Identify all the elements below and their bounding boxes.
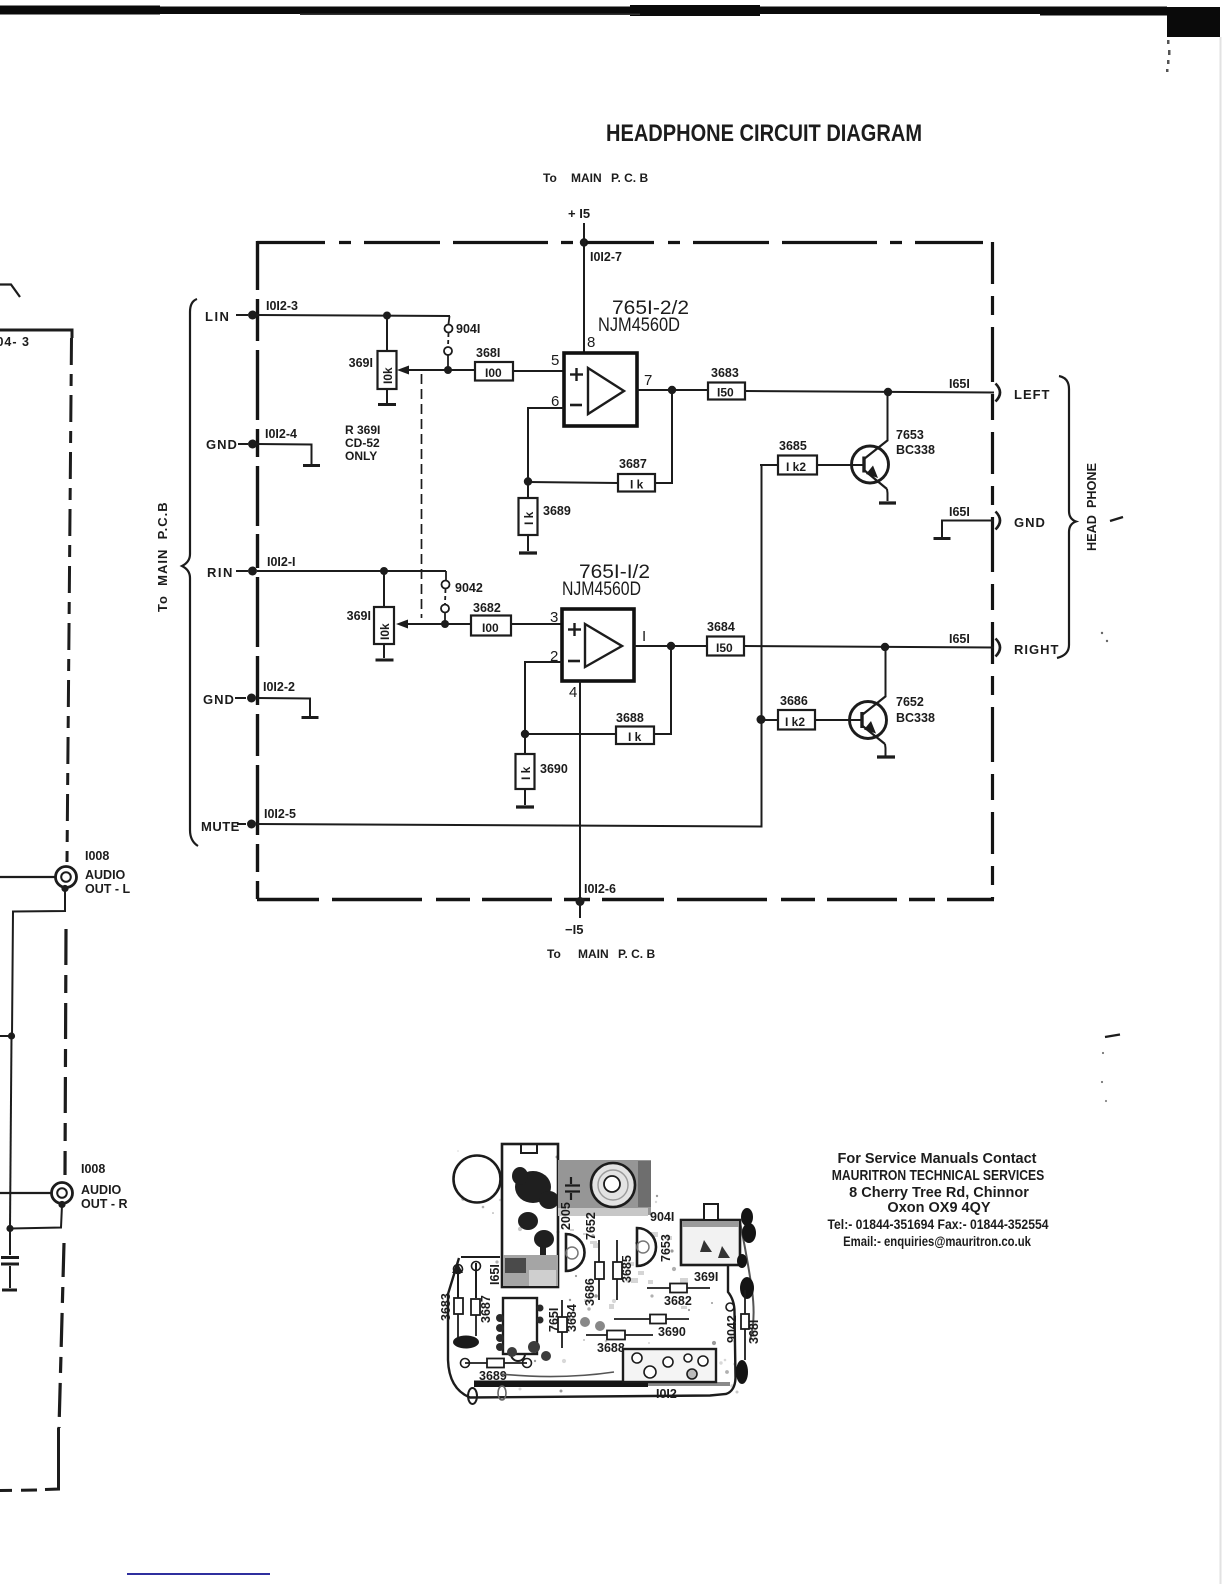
svg-text:Email:- enquiries@mauritron.co: Email:- enquiries@mauritron.co.uk — [843, 1233, 1032, 1249]
wire MUTE — [257, 465, 762, 827]
pcb resistor 3684 — [558, 1317, 567, 1332]
svg-text:5: 5 — [551, 352, 559, 369]
svg-text:I65I: I65I — [949, 377, 970, 391]
op-amp U2 7651-1/2 NJM4560D — [562, 562, 650, 681]
svg-text:3690: 3690 — [658, 1325, 686, 1339]
svg-text:I k: I k — [522, 511, 536, 525]
pcb resistor 3682 — [647, 1287, 710, 1289]
wire wiper R with arrow into 3691 — [396, 620, 471, 629]
PCB layout drawing — [439, 1144, 761, 1404]
ground 3690 — [524, 789, 526, 805]
ground emitter 7653 — [879, 501, 896, 504]
svg-text:Oxon OX9 4QY: Oxon OX9 4QY — [887, 1200, 990, 1216]
ground capacitor — [2, 1289, 17, 1292]
svg-text:765I: 765I — [547, 1308, 561, 1332]
transistor Q 7653 BC338 — [817, 392, 935, 501]
wire LEFT net — [745, 391, 994, 393]
wire 3687 to node — [528, 482, 618, 483]
svg-text:3682: 3682 — [664, 1294, 692, 1308]
svg-text:3688: 3688 — [597, 1341, 625, 1355]
wire audio L shield — [12, 889, 65, 1036]
connector 1008 AUDIO OUT-L — [0, 849, 130, 896]
junction LEFT/7653 — [884, 388, 892, 396]
svg-text:7652: 7652 — [584, 1212, 598, 1240]
ground 3691R — [383, 644, 385, 658]
svg-text:904I: 904I — [650, 1210, 674, 1224]
svg-text:BC338: BC338 — [896, 443, 935, 457]
dashed line below L connector — [65, 929, 66, 1175]
pcb outline top right — [740, 1222, 754, 1340]
wire +15 rail to pin 8 — [583, 223, 585, 353]
svg-text:I008: I008 — [85, 849, 109, 863]
wire wiper L with arrow into 3691 — [397, 366, 475, 375]
svg-text:To: To — [543, 171, 557, 185]
svg-text:I00: I00 — [482, 621, 499, 635]
svg-text:AUDIO: AUDIO — [81, 1183, 122, 1197]
svg-text:2005: 2005 — [559, 1202, 573, 1230]
jumper 9042 — [441, 571, 483, 624]
ground emitter 7652 — [877, 755, 895, 758]
resistor 3691 (L) 10k — [349, 316, 397, 389]
wire RIN — [257, 570, 446, 572]
dashed box border right — [991, 242, 994, 899]
wire output U2 — [634, 645, 707, 647]
svg-text:904I: 904I — [456, 322, 480, 336]
resistor 3690 1k — [516, 734, 568, 789]
svg-text:I65I: I65I — [949, 505, 970, 519]
svg-text:LEFT: LEFT — [1014, 387, 1051, 402]
pcb solder blobs right — [736, 1208, 756, 1384]
svg-text:To MAIN P.C.B: To MAIN P.C.B — [155, 501, 170, 612]
svg-text:−I5: −I5 — [565, 922, 583, 937]
label To MAIN P.C.B (top) — [543, 171, 648, 185]
dashed link 9041-9042 — [421, 374, 423, 618]
svg-text:I0I2-I: I0I2-I — [267, 555, 296, 569]
wire pin6 feedback leg — [528, 408, 564, 481]
pcb transistor 7653 D-shape — [637, 1228, 656, 1266]
connector 1651 GND — [942, 505, 1046, 537]
wire GND1 — [257, 444, 312, 464]
svg-text:I0I2: I0I2 — [656, 1387, 677, 1401]
svg-text:HEADPHONE CIRCUIT DIAGRAM: HEADPHONE CIRCUIT DIAGRAM — [606, 120, 922, 147]
transistor Q 7652 BC338 — [815, 647, 935, 756]
wire feedback R — [654, 646, 671, 734]
pcb board outline — [448, 1246, 736, 1398]
pcb texture noise — [457, 1150, 738, 1393]
junction LIN/3691 — [383, 312, 391, 320]
svg-text:3684: 3684 — [707, 620, 735, 634]
ground GND1 — [303, 464, 320, 467]
svg-text:I k: I k — [519, 766, 533, 780]
svg-text:7652: 7652 — [896, 695, 924, 709]
pcb resistor 3687 — [471, 1299, 480, 1315]
svg-text:I50: I50 — [717, 386, 734, 400]
wire audio R shield — [10, 1205, 62, 1229]
svg-text:7653: 7653 — [896, 428, 924, 442]
pcb blobs inside 2005 — [503, 1167, 559, 1286]
pcb connector 1012 — [623, 1349, 716, 1382]
resistor 3689 1k — [519, 482, 571, 535]
svg-text:RIN: RIN — [207, 565, 234, 580]
note R3691 CD-52 ONLY — [345, 423, 380, 463]
pcb misc pads — [507, 1317, 605, 1361]
svg-text:3683: 3683 — [711, 366, 739, 380]
svg-text:3682: 3682 — [473, 601, 501, 615]
svg-text:NJM4560D: NJM4560D — [562, 579, 641, 600]
brace To MAIN P.C.B — [182, 299, 198, 846]
svg-text:3688: 3688 — [616, 711, 644, 725]
svg-text:8: 8 — [587, 334, 595, 351]
svg-text:GND: GND — [1014, 515, 1046, 530]
svg-text:I k2: I k2 — [785, 715, 805, 729]
ground headphone GND — [934, 537, 951, 540]
pcb resistor 3688 — [586, 1334, 653, 1336]
wire stub left — [0, 1035, 11, 1037]
pcb trace wavy — [500, 1372, 614, 1377]
svg-text:P. C. B: P. C. B — [611, 171, 648, 185]
svg-text:I008: I008 — [81, 1162, 105, 1176]
noise mark mid — [1105, 1035, 1120, 1038]
resistor 3681 100 — [475, 346, 513, 381]
resistor 3683 150 — [708, 366, 745, 400]
svg-text:I: I — [642, 628, 646, 645]
pcb resistor 3689 — [465, 1362, 527, 1364]
svg-text:I k: I k — [628, 730, 642, 744]
svg-text:3686: 3686 — [780, 694, 808, 708]
svg-text:I k2: I k2 — [786, 460, 806, 474]
pcb mounting holes — [468, 1388, 477, 1404]
junction RIGHT/7652 — [881, 643, 889, 651]
wire output U1 — [637, 389, 708, 391]
wire pin2 feedback leg — [525, 662, 562, 734]
junction +15 on border — [580, 238, 588, 246]
svg-text:3689: 3689 — [543, 504, 571, 518]
pcb big circle C — [454, 1156, 501, 1203]
pcb top-left traces — [458, 1257, 500, 1298]
svg-text:I0I2-6: I0I2-6 — [584, 882, 616, 896]
wire 3682 to pin3 — [511, 623, 562, 625]
svg-text:OUT - L: OUT - L — [85, 882, 130, 896]
svg-text:NJM4560D: NJM4560D — [598, 315, 680, 336]
jumper 9041 — [444, 316, 480, 370]
svg-text:3683: 3683 — [439, 1293, 453, 1321]
junction output U1 — [668, 386, 676, 394]
svg-text:OUT - R: OUT - R — [81, 1197, 128, 1211]
junction shield R — [6, 1225, 13, 1232]
svg-text:I0I2-3: I0I2-3 — [266, 299, 298, 313]
svg-text:I00: I00 — [485, 366, 502, 380]
resistor 3691 (R) 10k — [347, 571, 394, 644]
left schematic corner curve — [0, 285, 20, 298]
junction shield L — [8, 1032, 15, 1039]
op-amp U1 7651-2/2 NJM4560D — [564, 298, 689, 426]
pcb pot 3691 block — [681, 1220, 740, 1265]
svg-text:8 Cherry Tree Rd, Chinnor: 8 Cherry Tree Rd, Chinnor — [849, 1185, 1029, 1201]
svg-text:9042: 9042 — [455, 581, 483, 595]
label To MAIN P.C.B (bottom) — [547, 947, 655, 961]
svg-text:For Service Manuals Contact: For Service Manuals Contact — [837, 1151, 1036, 1167]
svg-text:I0I2-4: I0I2-4 — [265, 427, 297, 441]
svg-text:3689: 3689 — [479, 1369, 507, 1383]
wire RIGHT net — [744, 646, 994, 648]
pcb resistors 3685 3686 vertical — [595, 1262, 604, 1279]
junction 9041/wiper — [444, 366, 452, 374]
resistor 3685 1k2 — [778, 439, 817, 475]
pcb resistor 3690 — [614, 1318, 689, 1320]
svg-text:GND: GND — [203, 692, 235, 707]
ground 3691L — [386, 389, 388, 403]
svg-text:I65I: I65I — [488, 1264, 502, 1285]
svg-text:I04- 3: I04- 3 — [0, 335, 30, 349]
wire shield down — [10, 1036, 12, 1228]
pcb IC 7651 — [503, 1298, 537, 1354]
svg-text:7: 7 — [644, 372, 652, 389]
wire GND2 — [257, 698, 310, 716]
dashed box border left — [256, 241, 259, 899]
junction 1012-6 on border — [576, 897, 585, 906]
dashed line below R connector — [59, 1243, 64, 1428]
svg-text:BC338: BC338 — [896, 711, 935, 725]
svg-text:I50: I50 — [716, 641, 733, 655]
svg-text:ONLY: ONLY — [345, 449, 377, 463]
ground GND2 — [302, 716, 319, 719]
svg-text:RIGHT: RIGHT — [1014, 642, 1059, 657]
svg-text:I0I2-5: I0I2-5 — [264, 807, 296, 821]
pcb resistor 3683 — [454, 1298, 463, 1314]
svg-text:Tel:- 01844-351694 Fax:- 01844: Tel:- 01844-351694 Fax:- 01844-352554 — [828, 1216, 1050, 1232]
resistor 3687 1k — [618, 457, 655, 492]
svg-text:3686: 3686 — [583, 1278, 597, 1306]
svg-text:I0I2-2: I0I2-2 — [263, 680, 295, 694]
svg-text:MAIN: MAIN — [578, 947, 609, 961]
junction RIN/3691 — [380, 567, 388, 575]
svg-text:3685: 3685 — [779, 439, 807, 453]
wire feedback L — [655, 390, 672, 483]
left box dashed edge — [67, 338, 72, 862]
svg-text:I0I2-7: I0I2-7 — [590, 250, 622, 264]
pcb electrolytic cap — [591, 1163, 635, 1207]
svg-text:3685: 3685 — [620, 1255, 634, 1283]
svg-text:LIN: LIN — [205, 309, 230, 324]
pcb grey patch — [558, 1160, 651, 1215]
svg-text:369I: 369I — [347, 609, 371, 623]
junction 9042/wiper — [441, 620, 449, 628]
junction output U2 — [667, 642, 675, 650]
svg-text:GND: GND — [206, 437, 238, 452]
svg-text:3687: 3687 — [619, 457, 647, 471]
connector 1651 LEFT — [949, 377, 1051, 402]
svg-text:369I: 369I — [694, 1270, 718, 1284]
svg-text:4: 4 — [569, 684, 577, 701]
svg-text:368I: 368I — [747, 1320, 761, 1344]
svg-text:3690: 3690 — [540, 762, 568, 776]
svg-text:I0k: I0k — [378, 623, 392, 640]
wire 3681 to pin5 — [513, 370, 564, 372]
svg-text:MUTE: MUTE — [201, 819, 240, 834]
noise dots — [1101, 632, 1103, 634]
svg-text:I k: I k — [630, 478, 644, 492]
connector 1008 AUDIO OUT-R — [0, 1162, 128, 1211]
resistor 3684 150 — [707, 620, 744, 656]
svg-text:CD-52: CD-52 — [345, 436, 380, 450]
svg-text:R 369I: R 369I — [345, 423, 380, 437]
svg-text:To: To — [547, 947, 561, 961]
pcb solder blob left — [453, 1336, 479, 1349]
wire -15 rail pin4 — [579, 681, 581, 918]
capacitor (left, to ground) — [1, 1228, 19, 1288]
blue scan mark bottom — [127, 1573, 270, 1575]
svg-text:9042: 9042 — [725, 1315, 739, 1343]
wire 3688 to node — [525, 733, 616, 735]
pcb dark band bottom — [474, 1381, 648, 1388]
resistor 3686 1k2 — [778, 694, 815, 730]
junction 3688/3690 — [521, 730, 529, 738]
svg-text:I65I: I65I — [949, 632, 970, 646]
svg-text:AUDIO: AUDIO — [85, 868, 126, 882]
ground 3689 — [527, 535, 529, 551]
svg-text:+ I5: + I5 — [568, 206, 590, 221]
svg-text:P. C. B: P. C. B — [618, 947, 655, 961]
dashed corner bottom left — [45, 1428, 59, 1490]
svg-text:HEAD PHONE: HEAD PHONE — [1084, 463, 1099, 551]
resistor 3682 100 — [471, 601, 511, 636]
junction 3687/3689 — [524, 477, 532, 485]
wire LIN — [257, 315, 450, 316]
junction 3686/mute rail — [757, 715, 766, 724]
resistor 3688 1k — [616, 711, 654, 744]
pcb IC 2005 block — [502, 1144, 558, 1287]
svg-text:3: 3 — [550, 609, 558, 626]
dashed box border bottom — [257, 898, 994, 901]
svg-text:7653: 7653 — [659, 1234, 673, 1262]
wire 3685 to mute rail — [760, 464, 778, 466]
Mauritron service text block — [828, 1151, 1050, 1249]
svg-text:3684: 3684 — [565, 1304, 579, 1332]
connector 1651 RIGHT — [949, 632, 1059, 657]
svg-text:369I: 369I — [349, 356, 373, 370]
noise mark right — [1110, 517, 1123, 521]
left box top edge — [0, 330, 72, 338]
pcb cap polarity mark — [565, 1177, 580, 1200]
brace HEAD PHONE — [1057, 376, 1076, 658]
wire 3686 to mute rail — [760, 719, 778, 721]
svg-text:MAIN: MAIN — [571, 171, 602, 185]
dashed box border top — [257, 241, 994, 244]
svg-text:I0k: I0k — [381, 367, 395, 384]
svg-text:368I: 368I — [476, 346, 500, 360]
svg-text:MAURITRON TECHNICAL SERVICES: MAURITRON TECHNICAL SERVICES — [832, 1167, 1045, 1183]
svg-text:3687: 3687 — [479, 1295, 493, 1323]
pcb transistor 7652 D-shape — [566, 1234, 585, 1271]
